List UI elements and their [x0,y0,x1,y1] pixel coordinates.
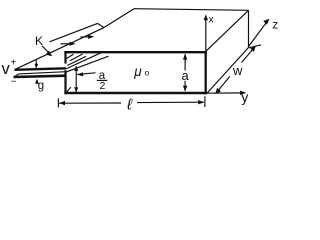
a dimension top arrowhead [183,54,187,60]
box bottom-right receding edge [206,48,248,95]
box front face bottom edge [64,92,206,94]
svg-text:y: y [241,89,248,105]
a/2 bottom arrowhead [74,87,78,92]
w dimension extension tick [249,45,261,48]
z axis line [249,22,268,47]
box front face right edge [205,51,207,94]
svg-text:w: w [232,63,243,78]
g lower arrowhead (up) [35,79,39,84]
a/2 dimension vertical line [75,66,77,92]
box front face left edge lower segment [64,70,66,94]
z axis arrowhead [263,19,269,25]
box rear-right vertical edge [248,10,250,47]
g upper arrow line [35,60,37,67]
K current band upper line [50,23,98,41]
svg-text:+: + [11,58,17,69]
K leader line [42,46,50,54]
band arrow 1 head [69,42,75,46]
g upper arrowhead (down) [34,64,38,69]
band arrow 2 line [81,36,90,38]
svg-text:μ: μ [133,64,142,79]
l dimension left tick [57,98,59,107]
box front face left edge upper segment [64,51,66,64]
notch receding diagonal B [66,56,109,72]
svg-text:v: v [2,60,11,78]
box rear-top edge [134,9,249,11]
a dimension bottom arrowhead [183,86,187,92]
hatch line D [70,54,83,61]
l dimension right arrowhead [198,100,204,104]
a dimension line lower part [184,81,186,91]
svg-text:o: o [145,68,150,78]
l dimension line left part [59,102,121,104]
a dimension line upper part [184,54,186,71]
band arrow 1 line [61,43,71,45]
box top-right receding edge [207,10,249,50]
w dimension upper arrowhead [250,46,256,52]
x axis line [205,17,207,51]
svg-text:2: 2 [100,80,106,92]
a/2 leader arrowhead [77,72,83,76]
svg-text:−: − [11,77,17,88]
l dimension left arrowhead [59,101,65,105]
svg-text:ℓ: ℓ [126,97,133,114]
box front face top edge [64,51,206,53]
lower feed plate top rear edge [19,72,66,74]
K current band lower line [15,28,104,70]
y axis arrowhead [240,91,246,95]
notch receding diagonal A [66,52,102,69]
a/2 leader line [77,73,95,75]
box top-left receding edge [104,9,134,28]
lower feed plate front edge [14,76,66,77]
w dimension line lower segment [216,76,230,93]
svg-text:a: a [182,68,190,83]
svg-text:K: K [35,34,43,48]
hatch line E [67,54,74,58]
svg-text:x: x [209,14,215,26]
svg-text:z: z [272,18,278,32]
g lower arrow line [36,80,38,84]
K current band end cap [98,23,105,27]
x axis arrowhead [204,14,208,20]
w dimension line upper segment [242,47,256,63]
a/2 fraction bar [97,79,108,81]
w dimension lower arrowhead [215,88,221,94]
y axis line [207,92,243,94]
K leader arrowhead [46,51,53,57]
bottom-left interior corner stub [66,87,71,93]
l dimension right tick [204,96,206,107]
l dimension line right part [137,101,204,103]
svg-text:g: g [38,80,44,92]
upper feed plate [15,68,67,70]
notch receding diagonal C [67,56,86,65]
a/2 top arrowhead [74,66,78,71]
band arrow 2 head [88,35,94,39]
lower feed plate left end cap [14,74,19,77]
